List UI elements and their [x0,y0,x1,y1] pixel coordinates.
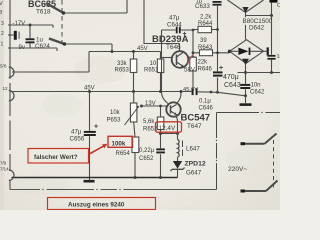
ground C642 [245,96,247,103]
svg-text:8: 8 [0,10,2,16]
edge cut text [0,1,3,16]
9V rail [8,48,57,51]
base wire [162,57,173,59]
svg-text:C646: C646 [199,106,214,112]
red box 100k [108,136,133,147]
svg-text:0,1μ: 0,1μ [199,99,211,105]
switch linkage dashed [61,0,63,47]
output terminal [264,50,267,52]
svg-text:2,2k: 2,2k [200,15,212,21]
wire pin5/8 to 45V rail [12,52,89,73]
svg-text:39: 39 [200,38,207,44]
resistor R651 [160,52,162,92]
mains switch pole 1 [242,143,265,145]
emitter to R646 node [188,56,193,58]
linkage [273,140,275,188]
svg-text:7/14: 7/14 [0,167,9,172]
capacitor C643 [213,71,223,73]
svg-text:+: + [219,65,223,72]
capacitor C633 top [213,1,222,3]
svg-text:1: 1 [1,42,4,48]
transistor BC635 label [28,0,56,16]
mains switch pole 2 [242,190,267,192]
svg-text:12: 12 [3,86,9,91]
svg-text:10k: 10k [110,110,121,116]
svg-text:ZPD12: ZPD12 [185,161,206,168]
svg-text:P653: P653 [107,118,122,124]
svg-text:5/8: 5/8 [0,64,7,69]
mains boundary dash-dot [216,112,280,190]
svg-text:-17V: -17V [13,21,26,27]
svg-text:9v: 9v [19,45,25,51]
zener ZPD12 G647 [177,157,179,161]
svg-text:T618: T618 [36,9,51,16]
potentiometer P653 [134,92,135,138]
svg-text:BC547: BC547 [181,113,211,124]
capacitor C644 [162,30,194,58]
svg-text:+: + [94,123,98,130]
svg-text:7/9: 7/9 [0,161,7,166]
wire [64,0,128,13]
svg-text:C644: C644 [167,22,182,29]
red box 12,4V [156,122,182,132]
svg-text:L647: L647 [186,146,200,153]
svg-text:R643: R643 [198,45,213,51]
capacitor C641 right [271,16,273,73]
diode inside [230,50,239,52]
svg-text:22k: 22k [198,60,209,66]
top diamond (cut) [228,0,264,13]
svg-text:Auszug eines 9240: Auszug eines 9240 [68,202,125,209]
svg-text:1n: 1n [277,54,281,60]
svg-text:220V~: 220V~ [228,166,247,173]
node 2 [8,34,14,36]
node: switch feed joins 45V rail [111,50,114,53]
svg-text:C656: C656 [70,136,85,143]
node 3 (-17V wire) [8,25,53,28]
svg-text:+: + [183,31,187,38]
red box Auszug eines 9240 [48,198,156,210]
svg-text:T647: T647 [187,123,202,130]
svg-text:47μ: 47μ [71,129,82,136]
svg-text:C643: C643 [224,82,241,89]
svg-text:5,6k: 5,6k [143,119,155,125]
58V red [184,67,196,74]
capacitor C646 in 45V rail [192,88,194,95]
svg-text:470μ: 470μ [223,74,239,81]
switch S1a [46,3,64,13]
transistor BC547 [166,102,180,116]
transistor BD239A [152,34,189,51]
wire from top to BD239A collector [144,0,180,52]
svg-text:R644: R644 [198,21,213,27]
switch S1b [49,39,65,45]
main diamond [245,16,247,40]
wire 13V base [142,105,168,107]
resistor R653 [133,52,135,92]
node 12 connector [3,86,9,91]
svg-text:10: 10 [150,61,157,67]
emitter wire [176,116,178,133]
svg-text:45,6V: 45,6V [183,87,198,93]
ground [89,178,91,181]
45V rail upper [89,51,161,53]
bottom 0V rail [12,177,178,179]
node: C656 tap / node: R653-P653 / node: R651 bottom / node: BC547 collector tap [88,90,91,93]
label 9V [19,45,25,51]
red arrow [89,146,105,155]
inductor L647 [177,134,179,140]
wire +DC down/right [238,72,281,74]
capacitor at pin 2 [14,31,17,40]
svg-text:V: V [0,1,3,7]
svg-text:T646: T646 [166,44,181,51]
svg-text:R651: R651 [144,68,159,74]
label 45V [84,86,95,92]
resistor R646 [190,57,197,71]
capacitor C642 [245,73,247,96]
label 45V [137,46,148,52]
wire [65,44,113,52]
svg-text:C642: C642 [250,90,265,96]
svg-text:G647: G647 [186,170,202,177]
svg-text:R654: R654 [116,151,131,157]
svg-text:D642: D642 [249,25,265,32]
resistor R652 [160,106,162,134]
svg-text:13V: 13V [145,101,156,107]
svg-text:C: C [277,3,280,9]
red box falscher Wert? [28,149,89,164]
svg-text:12,4V: 12,4V [159,125,176,132]
node 5/8 connector [0,64,7,69]
svg-text:45V: 45V [137,46,148,52]
svg-text:2: 2 [1,31,4,37]
svg-text:C624: C624 [35,43,50,50]
svg-text:3: 3 [1,21,4,27]
wire to fuse [246,3,272,16]
node: R653 top [132,50,135,53]
resistor R643 [193,52,230,54]
svg-text:C652: C652 [139,156,154,162]
svg-text:1μ: 1μ [196,0,202,5]
capacitor C652 [160,134,162,178]
220V~ label [228,166,247,173]
45V rail lower [13,91,192,93]
svg-text:R646: R646 [198,67,213,73]
svg-text:0,22μ: 0,22μ [139,148,155,154]
node 1 [1,42,4,48]
left bus wire [9,0,11,171]
paper background [0,0,280,210]
svg-text:100k: 100k [112,140,126,147]
bottom boundary line [10,189,217,191]
svg-text:10n: 10n [251,83,261,89]
svg-text:47μ: 47μ [169,15,180,22]
svg-text:falscher Wert?: falscher Wert? [34,154,78,161]
svg-text:R653: R653 [115,68,130,74]
resistor R654 (red boxed) [132,137,139,153]
resistor R644 [193,29,218,31]
collector curves [162,58,169,104]
red annotations [28,122,182,210]
fuse black bar top right [270,0,278,3]
bottom arrow of bridge [242,59,249,66]
svg-text:33k: 33k [117,61,128,67]
vertical R644 left node down to R643/emitter [192,30,194,58]
capacitor C624 [29,25,31,48]
capacitor C656 [89,92,91,178]
node 7/14 connector [0,161,9,172]
svg-text:58V: 58V [184,67,196,74]
vertical C633/R644/C643 column [217,6,219,92]
